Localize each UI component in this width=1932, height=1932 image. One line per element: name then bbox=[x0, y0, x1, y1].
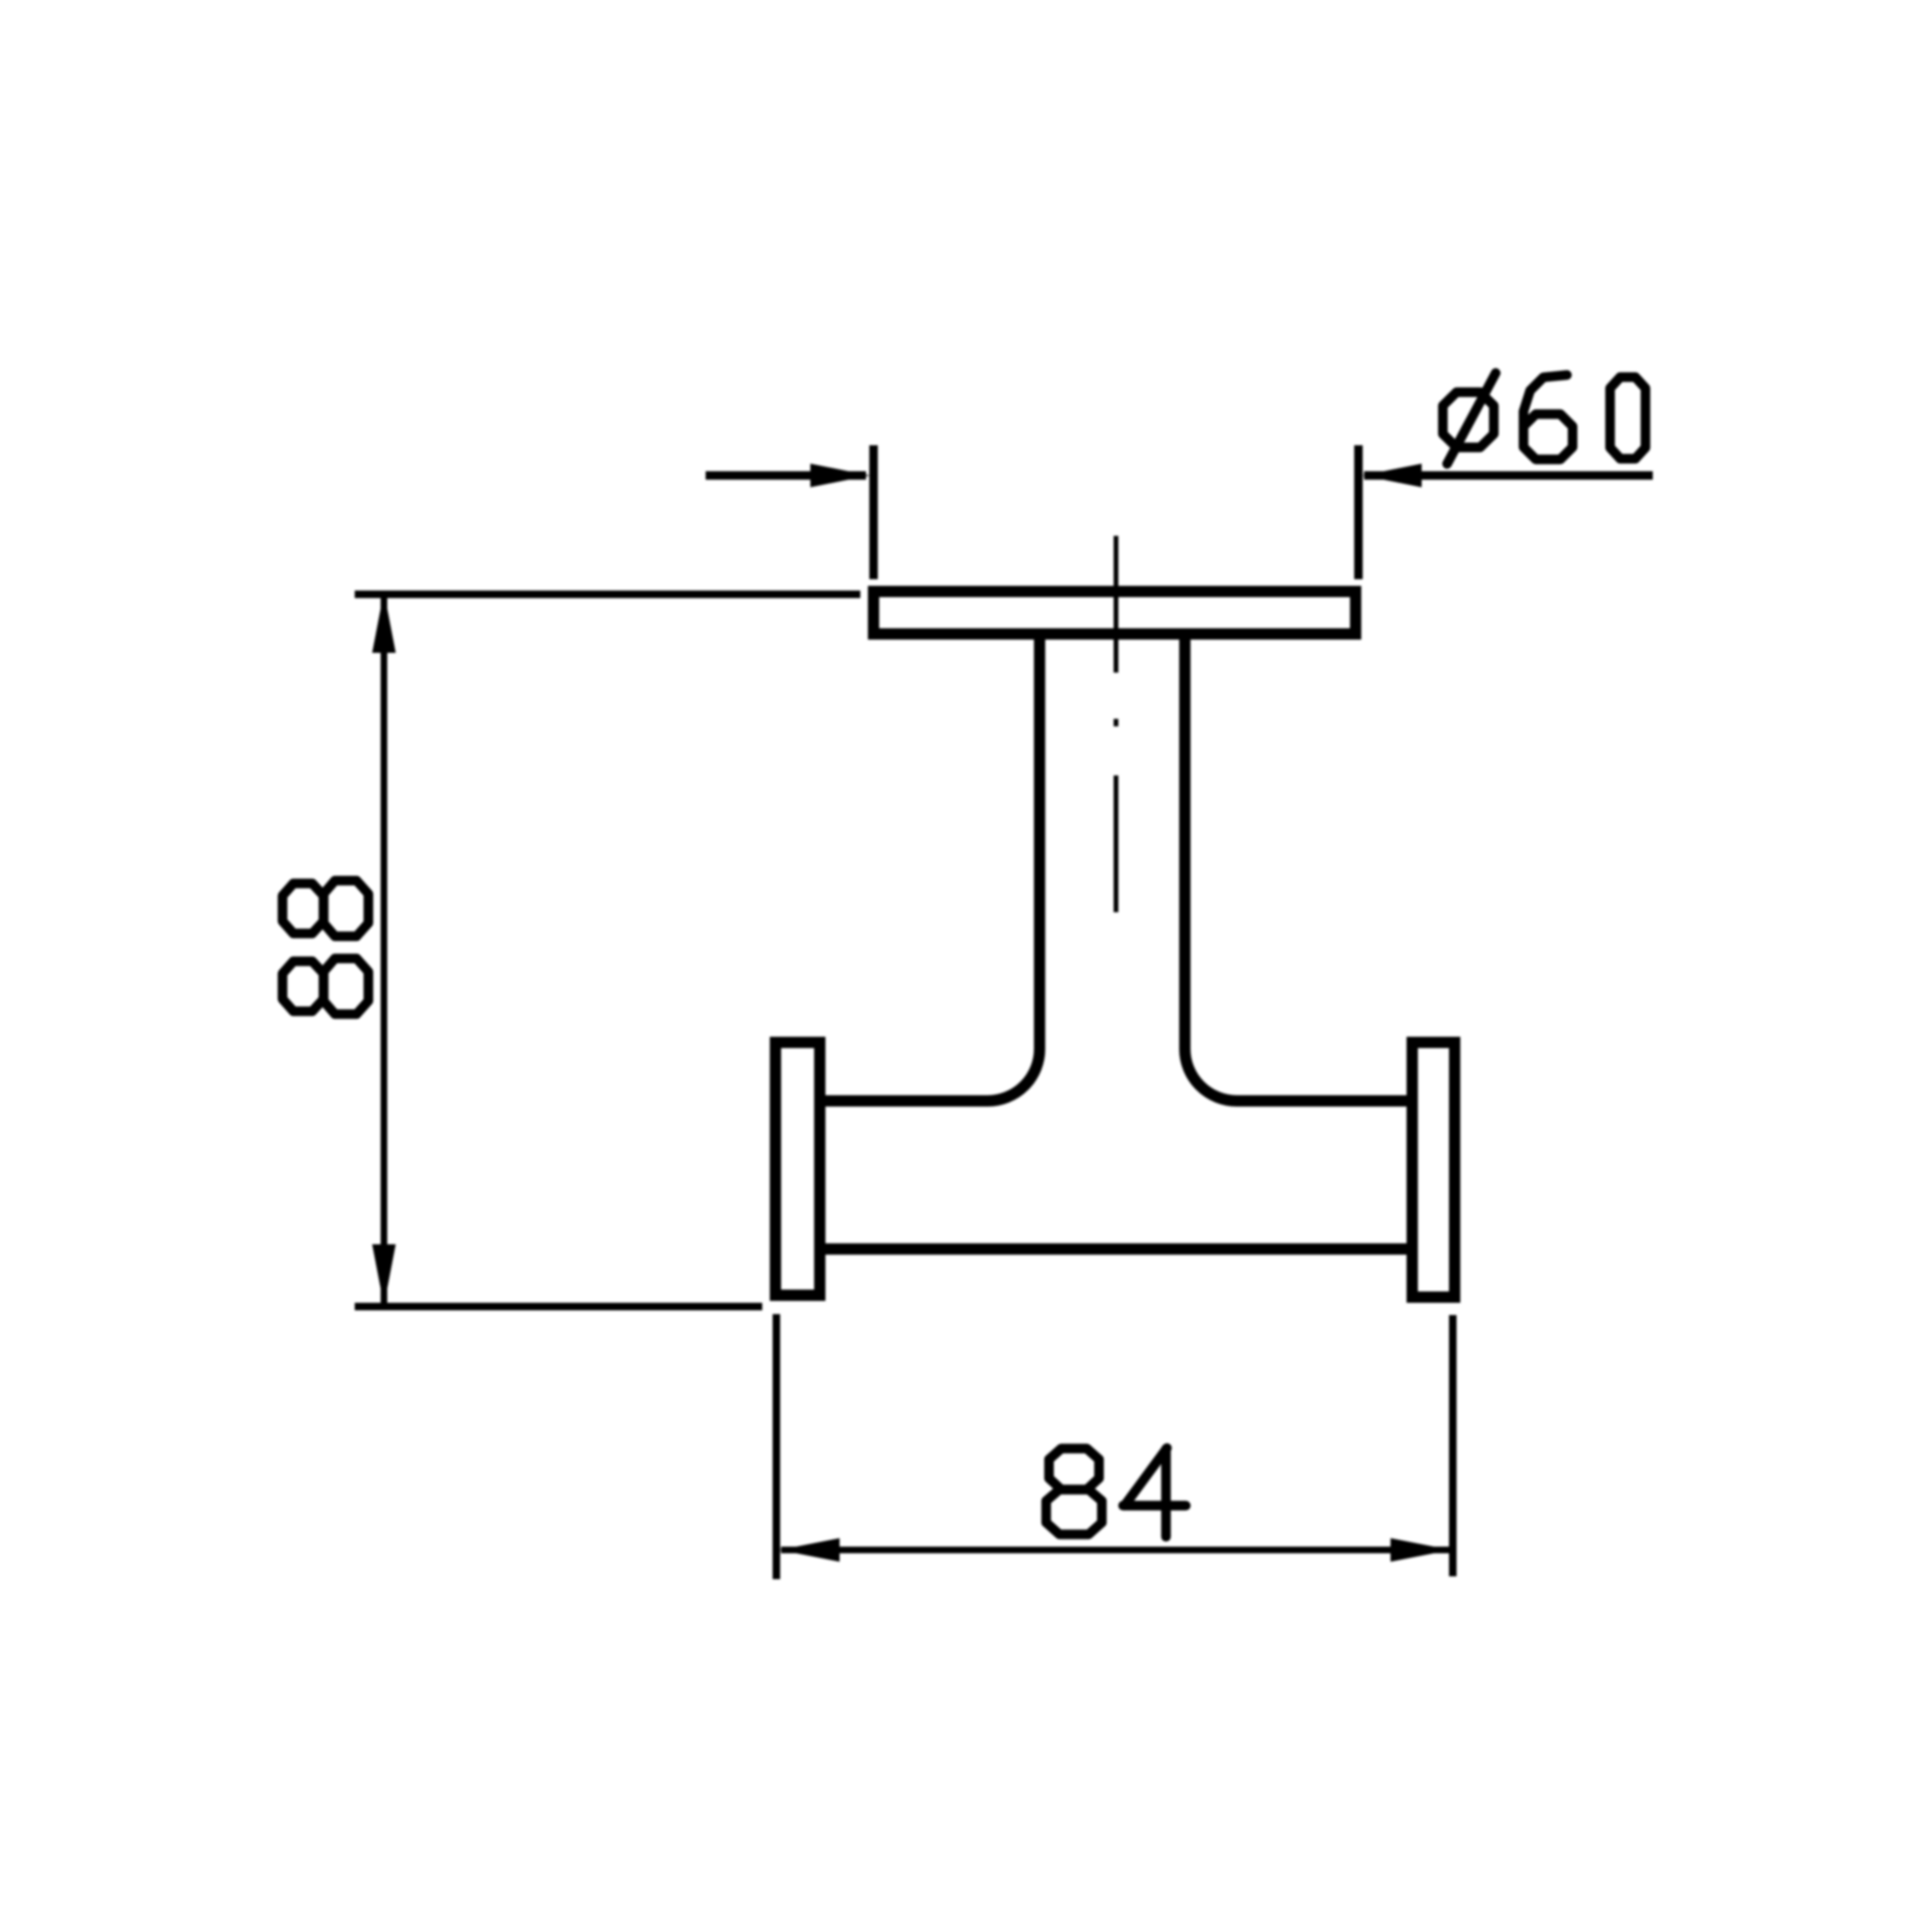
dimension 84: left extension line bbox=[773, 1314, 780, 1579]
glyph 8 bbox=[1046, 1449, 1102, 1535]
wall plate flange (Ø60 top plate) bbox=[874, 591, 1356, 634]
dimension 88: bottom arrowhead bbox=[373, 1244, 396, 1306]
dimension Ø60: left arrowhead bbox=[810, 464, 870, 488]
glyph 4 bbox=[1124, 1448, 1187, 1537]
dimension 88: top extension line bbox=[355, 591, 860, 598]
dimension 84: right arrowhead bbox=[1391, 1539, 1451, 1562]
right hook end flange bbox=[1412, 1042, 1455, 1297]
left hook end flange bbox=[775, 1042, 820, 1295]
dimension Ø60: left leader line bbox=[706, 472, 866, 480]
stem left edge wire bbox=[1034, 634, 1045, 1049]
arm top line right segment bbox=[1237, 1095, 1412, 1107]
glyph Ø bbox=[1443, 392, 1494, 448]
dimension Ø60: left extension line bbox=[870, 445, 878, 579]
dimension 88: top arrowhead bbox=[373, 591, 396, 653]
arm bottom line bbox=[820, 1243, 1412, 1255]
dimension 84: right extension line bbox=[1449, 1315, 1457, 1576]
stem right edge wire bbox=[1179, 634, 1191, 1049]
dimension 84: dimension line bbox=[781, 1547, 1449, 1554]
dimension Ø60: right leader line bbox=[1364, 472, 1653, 480]
dimension 88: bottom extension line bbox=[355, 1303, 762, 1310]
glyph 8 (second) bbox=[283, 881, 369, 937]
dimension 84: text label bbox=[1046, 1448, 1186, 1537]
dimension 88: text label rotated bbox=[283, 881, 369, 1015]
glyph 8 (first) bbox=[283, 958, 369, 1014]
dimension 84: left arrowhead bbox=[779, 1539, 840, 1562]
glyph 0 bbox=[1610, 377, 1646, 459]
dimension Ø60: text label bbox=[1443, 373, 1646, 463]
vertical centerline dash-dot bbox=[1114, 536, 1119, 912]
dimension Ø60: right extension line bbox=[1355, 445, 1363, 579]
arm top line left segment bbox=[820, 1095, 988, 1107]
glyph 6 bbox=[1524, 375, 1573, 460]
dimension Ø60: right arrowhead bbox=[1362, 464, 1422, 488]
left fillet stem-to-arm bbox=[988, 1049, 1040, 1101]
right fillet stem-to-arm bbox=[1185, 1049, 1237, 1101]
dimension 88: dimension line bbox=[381, 594, 388, 1304]
